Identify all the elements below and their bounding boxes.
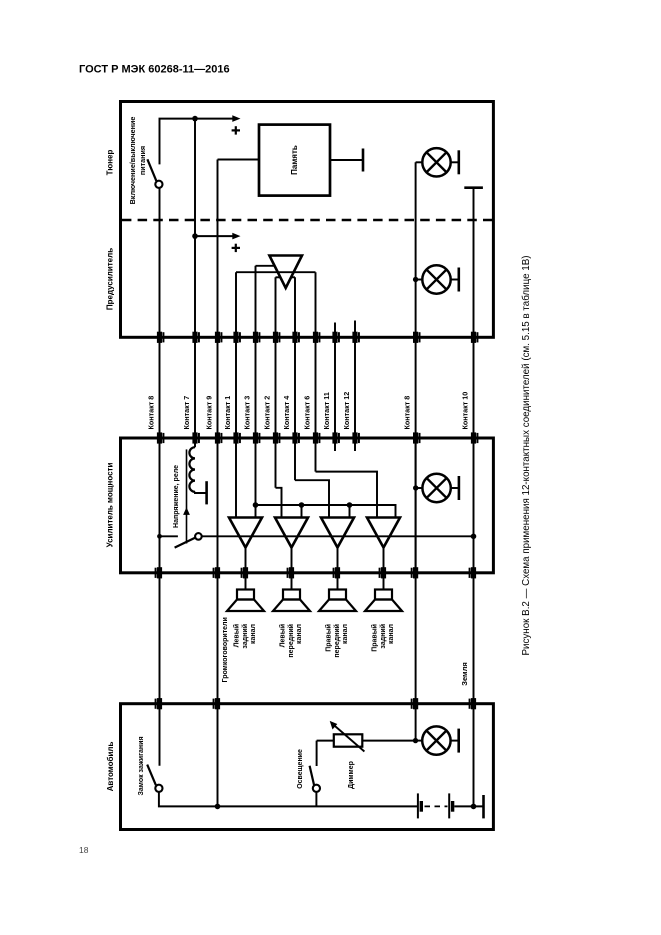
svg-text:18: 18 (79, 845, 89, 855)
switch power on/off contact (155, 181, 162, 188)
battery B1 short plate (420, 801, 423, 812)
ground terminal bar (tuner) (464, 186, 483, 189)
wire lamp line in block B segment (415, 441, 417, 573)
svg-text:Левый: Левый (233, 624, 241, 647)
svg-text:задний: задний (379, 624, 387, 649)
arrow preamp +B (232, 233, 240, 240)
op-amp A4 power amplifier (367, 518, 400, 548)
wire L2 around preamp op-amp (236, 271, 316, 273)
connector pins on car harness (block C top) (155, 698, 477, 709)
speaker LS4 (375, 590, 392, 600)
svg-text:Освещение: Освещение (297, 749, 304, 789)
svg-text:канал: канал (342, 624, 349, 644)
speaker LS1 (237, 590, 254, 600)
wire contact 8 line (to ignition switch) (159, 536, 161, 765)
svg-text:Левый: Левый (279, 624, 287, 647)
wire contact 6 line (315, 272, 317, 471)
svg-text:Контакт 1: Контакт 1 (223, 396, 232, 430)
wire dimmer to lamp (362, 740, 415, 742)
svg-text:Автомобиль: Автомобиль (106, 742, 115, 792)
lamp tuner (422, 148, 450, 176)
svg-text:Контакт 3: Контакт 3 (243, 396, 252, 430)
svg-text:Правый: Правый (371, 624, 379, 652)
svg-text:Память: Память (290, 145, 299, 175)
wire ignition to battery rail (159, 792, 417, 806)
speaker LS2 (283, 590, 300, 600)
wire L1 to preamp op-amp left (256, 265, 275, 267)
ignition switch blade Замок зажигания (147, 765, 156, 786)
lighting switch contact (313, 785, 320, 792)
speaker LS3 (329, 590, 346, 600)
svg-text:Включение/выключение: Включение/выключение (128, 117, 137, 205)
connector contact labels Контакт 1-12 (147, 392, 470, 430)
connector pins on power amp output (block B bottom) (155, 567, 477, 578)
battery B2 short plate (451, 801, 454, 812)
lamp preamp (416, 279, 423, 281)
wire battery to terminal (454, 805, 483, 807)
battery terminal end bar (482, 795, 485, 818)
connector pins on preamp output (block A bottom) (157, 332, 479, 343)
svg-text:передний: передний (333, 624, 341, 658)
plus sign tuner (232, 129, 240, 131)
memory right terminal (330, 159, 363, 161)
lighting switch blade (310, 766, 315, 785)
rheostat arrow (333, 725, 364, 752)
wire tuner +B rail (160, 119, 234, 165)
arrow tuner +B (232, 115, 240, 122)
svg-text:Рисунок В.2 — Схема применения: Рисунок В.2 — Схема применения 12-контак… (521, 256, 532, 656)
svg-text:Контакт 7: Контакт 7 (182, 396, 191, 430)
wire contact 11 gap segment (334, 337, 336, 451)
svg-text:питания: питания (138, 146, 147, 175)
memory box Память (259, 125, 330, 196)
wire contact 9 line (memory keep-alive) (217, 160, 219, 807)
op-amp U1 preamp output stage (269, 256, 302, 289)
relay actuation arrow (186, 449, 188, 543)
svg-text:Контакт 4: Контакт 4 (282, 396, 291, 430)
relay coil terminal (195, 492, 207, 493)
junction node preamp rail (192, 233, 198, 239)
wire amp 4 output to speaker (383, 548, 385, 590)
junction node ground return (215, 804, 221, 810)
junction node bus B (299, 502, 305, 508)
wire contact 4 line (294, 277, 296, 480)
svg-text:Замок зажигания: Замок зажигания (138, 736, 145, 795)
wire relay switch output (202, 535, 474, 537)
wire amp 1 output to speaker (245, 548, 247, 590)
svg-text:Контакт 11: Контакт 11 (322, 392, 331, 429)
svg-text:канал: канал (388, 624, 395, 644)
wire lamp line (contact 8b, tuner to car lamp) (415, 162, 417, 740)
block B outline Усилитель мощности (121, 438, 494, 573)
wire amp 3 output to speaker (337, 548, 339, 590)
svg-text:ГОСТ Р МЭК 60268-11—2016: ГОСТ Р МЭК 60268-11—2016 (79, 64, 230, 76)
lighting switch wire Освещение (316, 741, 318, 766)
wire contact 10 line Земля (473, 188, 475, 807)
lamp power amp (416, 487, 423, 489)
op-amp A3 power amplifier (321, 518, 354, 548)
junction node switch output to ground line (471, 534, 477, 540)
wire preamp +B rail (195, 235, 233, 237)
lamp car (panel illumination) (415, 740, 422, 742)
svg-text:Контакт 8: Контакт 8 (147, 396, 156, 430)
wire staircase S3 (contact 6 to amp 4) (316, 472, 378, 518)
battery B1 long plate (417, 793, 419, 818)
svg-text:Усилитель мощности: Усилитель мощности (106, 463, 115, 548)
op-amp A2 power amplifier (275, 518, 308, 548)
wire staircase S2 (contact 4 to amp 3) (295, 480, 329, 517)
wire amp 2 output to speaker (291, 548, 293, 590)
svg-text:Контакт 9: Контакт 9 (205, 396, 214, 430)
svg-text:Правый: Правый (325, 624, 333, 652)
relay switch blade (175, 538, 196, 548)
svg-text:канал: канал (250, 624, 257, 644)
block A outline (tuner+preamp unit) (121, 102, 494, 338)
junction node rail/contact7 (192, 116, 198, 122)
junction node bus A (253, 502, 259, 508)
svg-text:Контакт 12: Контакт 12 (342, 392, 351, 430)
relay switch stub (160, 535, 178, 537)
connector pins on power amp input (block B top) (157, 432, 479, 443)
wire contact 1 line (235, 272, 237, 517)
svg-text:Предусилитель: Предусилитель (106, 248, 115, 310)
svg-text:Контакт 2: Контакт 2 (263, 396, 272, 430)
svg-text:Напряжение, реле: Напряжение, реле (173, 465, 180, 528)
wire lighting to dimmer (317, 740, 334, 742)
wire supply bus (256, 505, 396, 518)
svg-text:канал: канал (296, 624, 303, 644)
junction node bus C (347, 502, 353, 508)
wire tap contact 2 (276, 276, 281, 278)
battery B2 long plate (448, 793, 450, 818)
plus sign preamp (232, 247, 240, 249)
wire contact 12 stub (preamp) (354, 321, 356, 338)
rheostat dimmer Диммер (334, 734, 363, 746)
svg-text:Диммер: Диммер (348, 761, 355, 789)
svg-text:Земля: Земля (460, 662, 469, 685)
svg-text:передний: передний (287, 624, 295, 658)
wire tap contact 4 (291, 276, 295, 278)
svg-text:Контакт 8: Контакт 8 (403, 396, 412, 430)
wire contact 8 line (switch to relay) (159, 188, 161, 536)
wire lighting switch to battery rail (315, 792, 317, 806)
switch power on/off blade (147, 159, 156, 181)
junction node ground line to battery rail (471, 804, 477, 810)
svg-text:задний: задний (241, 624, 249, 649)
wire contact 2 line (275, 277, 277, 488)
svg-text:Контакт 10: Контакт 10 (461, 392, 470, 430)
wire contact 7 line (194, 119, 196, 448)
block C outline Автомобиль (121, 704, 494, 830)
op-amp A1 power amplifier (229, 518, 262, 548)
dashed divider between tuner and preamp (122, 219, 492, 222)
ignition switch contact (155, 785, 162, 792)
relay switch contact (195, 533, 202, 540)
wire staircase S1 (contact 2 to amp 2) (276, 488, 282, 518)
wire contact 12 gap segment (354, 337, 356, 451)
relay coil (Напряжение реле) (189, 447, 195, 492)
svg-text:Громкоговорители: Громкоговорители (222, 617, 229, 682)
wire contact 11 stub (preamp) (334, 323, 336, 338)
svg-text:Контакт 6: Контакт 6 (303, 396, 312, 430)
wire contact 3 line (255, 266, 257, 518)
battery dashed link (425, 805, 448, 807)
wire to memory box (218, 159, 260, 161)
svg-text:Тюнер: Тюнер (106, 149, 115, 175)
